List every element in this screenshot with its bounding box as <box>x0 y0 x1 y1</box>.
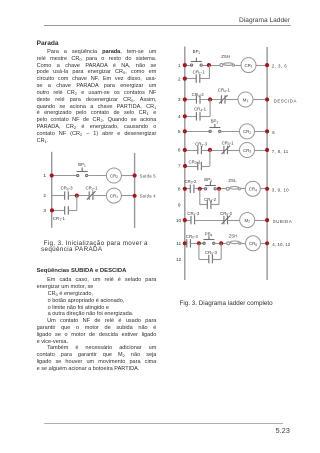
svg-text:BP3: BP3 <box>204 177 212 183</box>
svg-text:M1: M1 <box>243 97 249 103</box>
node junction rung2 <box>75 194 79 198</box>
wire rung3 to coil <box>225 99 238 101</box>
svg-text:CR4-2: CR4-2 <box>204 197 217 203</box>
relay coil CR5 <box>246 236 261 251</box>
contact CR4-3 (NO rung10) <box>187 211 200 224</box>
wire rung2 right segment <box>121 195 134 197</box>
svg-text:8: 8 <box>178 187 181 193</box>
rung number 3 <box>43 208 46 214</box>
svg-text:CR1-1: CR1-1 <box>53 216 66 222</box>
svg-text:CR5: CR5 <box>249 241 257 247</box>
node rung8-left rail <box>183 187 187 191</box>
contact CR1-3 (NO seal rung4) <box>194 107 207 121</box>
svg-text:1: 1 <box>43 173 46 179</box>
wire rung3 to connector <box>68 210 77 212</box>
motor coil M1 <box>238 92 253 107</box>
rung number 2 <box>43 193 46 199</box>
svg-text:7, 8, 11: 7, 8, 11 <box>272 149 289 154</box>
svg-text:BP1: BP1 <box>78 162 86 168</box>
svg-text:CR0-3: CR0-3 <box>61 186 74 192</box>
rung 5: wire left <box>185 131 210 133</box>
wire rung5 right <box>255 131 268 133</box>
rung 6: wire left <box>185 150 198 152</box>
ref label rung11 <box>272 242 290 247</box>
rung 3: wire left <box>185 99 197 101</box>
ref label rung8 <box>272 187 289 192</box>
contact CR3-1 (NC rung6) <box>222 140 235 154</box>
svg-text:6: 6 <box>178 148 181 154</box>
svg-text:CR2-3: CR2-3 <box>195 142 208 148</box>
wire rung1 to coil <box>235 65 242 67</box>
wire rung1 left segment <box>52 175 77 177</box>
svg-text:9: 9 <box>178 202 181 208</box>
node rung1-left rail <box>50 173 54 177</box>
node rung1-left rail <box>183 63 187 67</box>
contact CR2-1 (NC, small fig) <box>85 186 98 200</box>
svg-text:ZSH: ZSH <box>221 54 230 59</box>
node rung6-right rail <box>265 148 269 152</box>
node rung6-left rail <box>183 148 187 152</box>
svg-text:4, 10, 12: 4, 10, 12 <box>272 242 290 247</box>
rung 9 (seal): connector left <box>199 189 201 205</box>
svg-text:6: 6 <box>272 130 275 135</box>
wire rung8 mid <box>215 188 226 190</box>
wire rung11 right <box>261 243 268 245</box>
svg-text:CR1-1: CR1-1 <box>193 70 206 76</box>
svg-text:CR0-3: CR0-3 <box>186 234 199 240</box>
wire connector rung2 to rung1 <box>208 65 210 79</box>
svg-text:3: 3 <box>43 208 46 214</box>
node rung11-left rail <box>183 241 187 245</box>
svg-text:CR4-3: CR4-3 <box>187 211 200 217</box>
svg-text:BP1: BP1 <box>193 49 201 55</box>
wire rung10 mid <box>195 220 224 222</box>
node rung7-left rail <box>183 164 187 168</box>
left power rail (small fig) <box>51 152 53 228</box>
wire rung2 right <box>200 78 210 80</box>
svg-text:2: 2 <box>43 193 46 199</box>
wire rung6 right <box>255 150 268 152</box>
wire rung11 to junction <box>190 243 204 245</box>
pushbutton BP1 (large fig) <box>191 49 203 66</box>
svg-text:CR4-1: CR4-1 <box>218 88 231 94</box>
contact CR1-1 (NO seal rung2) <box>193 70 206 83</box>
node rung2-left rail <box>183 77 187 81</box>
contact CR3-1 (NO seal rung7) <box>188 159 201 170</box>
node rung10-right rail <box>265 218 269 222</box>
node junction rung8 left <box>198 187 202 191</box>
svg-text:M2: M2 <box>244 218 250 224</box>
node rung4-left rail <box>183 114 187 118</box>
contact CR0-3 (NO rung11) <box>186 234 199 248</box>
relay coil CR2 <box>240 124 255 139</box>
wire rung10 to coil <box>228 220 240 222</box>
svg-text:CR1: CR1 <box>244 63 252 69</box>
node junction rung8 right <box>217 187 221 191</box>
svg-text:CR5-3: CR5-3 <box>205 250 218 256</box>
wire rung6 to coil <box>228 150 240 152</box>
svg-text:12: 12 <box>176 257 182 263</box>
limit switch ZSH (rung11) <box>227 233 241 244</box>
rung 7 (seal): wire <box>185 166 198 168</box>
svg-text:7: 7 <box>178 164 181 170</box>
svg-text:CR3-1: CR3-1 <box>188 159 201 165</box>
contact CR4-2 (NO seal rung9) <box>200 197 217 209</box>
node rung5-left rail <box>183 129 187 133</box>
contact CR5-3 (NO seal rung12) <box>199 250 218 263</box>
ref label rung6 <box>272 149 289 154</box>
node rung10-left rail <box>183 218 187 222</box>
wire rung12 right + connector <box>212 243 221 259</box>
svg-text:CR2: CR2 <box>243 129 251 135</box>
relay coil CR2 (small fig rung1) <box>106 168 121 183</box>
ref label DESCIDA <box>274 99 297 104</box>
svg-text:11: 11 <box>176 241 181 247</box>
contact CR2-3 (NO rung6) <box>195 142 208 155</box>
contact CR0-2 (NO rung8) <box>184 179 197 193</box>
svg-text:CR2-1: CR2-1 <box>85 186 98 192</box>
wire rung4 right <box>200 116 210 118</box>
wire rung10 right <box>255 220 267 222</box>
svg-text:4: 4 <box>178 114 181 120</box>
footer <box>44 423 283 424</box>
wire rung8 to coil <box>241 188 246 190</box>
wire rung11 to coil <box>241 243 246 245</box>
pushbutton BP2 (rung5) <box>209 119 221 133</box>
svg-text:DESCIDA: DESCIDA <box>274 99 297 104</box>
node junction rung11 right <box>219 241 223 245</box>
motor coil M2 <box>240 213 255 228</box>
left power rail (large fig) <box>184 47 186 281</box>
node rung11-right rail <box>265 241 269 245</box>
wire rung7 right <box>201 166 210 168</box>
wire rung1 middle segment <box>87 175 106 177</box>
ref label rung5 <box>272 130 275 135</box>
node rung1-right rail <box>265 63 269 67</box>
ref label SUBIDA <box>273 219 292 224</box>
pushbutton BP1 (NO) <box>77 162 88 177</box>
rung numbers 1-12 (large fig) <box>176 63 182 263</box>
svg-text:BP2: BP2 <box>211 119 219 125</box>
svg-text:Saída 4: Saída 4 <box>140 194 157 199</box>
wire rung3 left segment <box>52 210 65 212</box>
node rung3-left rail <box>183 97 187 101</box>
svg-text:CR5-2: CR5-2 <box>220 211 233 217</box>
node junction rung11 left <box>197 241 201 245</box>
svg-text:5: 5 <box>178 129 181 135</box>
relay coil CR1 <box>241 58 256 73</box>
output label Saida 5 <box>140 173 157 178</box>
wire rung1 mid <box>201 65 219 67</box>
svg-text:3, 9, 10: 3, 9, 10 <box>272 187 289 192</box>
node rung3-right rail <box>265 97 269 101</box>
contact CR5-2 (NC rung10) <box>220 211 233 224</box>
wire connector rung3 up to rung2 junction <box>76 196 78 211</box>
svg-text:2: 2 <box>178 76 181 82</box>
heading Seqüências SUBIDA e DESCIDA <box>37 268 157 275</box>
wire rung2 to coil <box>93 195 106 197</box>
svg-text:ZSL: ZSL <box>228 178 237 183</box>
wire rung5 to coil <box>220 131 240 133</box>
node rung1-right rail <box>133 173 137 177</box>
node rung2-right rail <box>133 194 137 198</box>
caption of small figure <box>37 241 159 253</box>
rung number 1 <box>43 173 46 179</box>
svg-text:CR4: CR4 <box>249 187 257 193</box>
relay coil CR3 <box>240 143 255 158</box>
rung 11: wire left <box>185 243 187 245</box>
running header "Diagrama Ladder" <box>0 17 290 24</box>
wire rung8 right <box>260 188 267 190</box>
left column: heading Parada <box>37 41 157 47</box>
wire rung1 right <box>256 65 267 67</box>
wire rung3 right <box>253 99 267 101</box>
svg-text:ZSH: ZSH <box>229 233 238 238</box>
node rung5-right rail <box>265 129 269 133</box>
svg-text:CR3: CR3 <box>243 148 251 154</box>
node junction rung3/rung4 <box>208 97 212 101</box>
wire rung1 right segment <box>121 175 134 177</box>
relay coil CR4 <box>245 181 260 196</box>
svg-text:SUBIDA: SUBIDA <box>273 219 292 224</box>
wire rung2 left segment <box>52 195 65 197</box>
node junction rung6/rung7 <box>208 148 212 152</box>
svg-text:Saída 5: Saída 5 <box>140 173 157 178</box>
svg-text:3: 3 <box>178 97 181 103</box>
wire rung11 mid <box>214 243 227 245</box>
svg-text:CR0-2: CR0-2 <box>184 179 197 185</box>
pushbutton BP3 (rung8) <box>204 177 216 190</box>
rung 2 (seal): wire <box>185 78 196 80</box>
wire connector rung4 to rung3 <box>209 100 211 117</box>
svg-text:10: 10 <box>176 218 182 224</box>
limit switch ZSL (rung8) <box>226 178 240 190</box>
svg-text:CR2: CR2 <box>110 173 118 179</box>
left column paragraph 1 <box>37 49 157 145</box>
node rung8-right rail <box>265 187 269 191</box>
svg-text:CR1-2: CR1-2 <box>192 92 205 98</box>
contact CR1-1 (NO seal, small fig) <box>53 206 68 221</box>
wire rung2 to junction <box>68 195 89 197</box>
rung 4 (seal): wire <box>185 116 197 118</box>
svg-text:2, 3, 6: 2, 3, 6 <box>272 64 287 69</box>
wire rung6 mid <box>201 150 224 152</box>
contact CR4-1 (NC rung3) <box>218 88 231 104</box>
svg-text:CR3-1: CR3-1 <box>222 140 235 146</box>
node junction rung1/rung2 <box>207 63 211 67</box>
wire rung8 to junction <box>194 188 206 190</box>
wire connector rung7 to rung6 <box>209 150 211 166</box>
svg-text:PB4: PB4 <box>205 232 213 238</box>
svg-text:1: 1 <box>178 63 181 69</box>
contact CR0-3 (NO, small fig) <box>61 186 74 200</box>
rung 8: wire left <box>185 188 191 190</box>
wire rung3 mid <box>200 99 221 101</box>
left column paragraph 2 <box>37 277 157 373</box>
right power rail (small fig) <box>134 153 136 228</box>
svg-text:CR4-1: CR4-1 <box>194 107 207 113</box>
limit switch ZSH (rung1) <box>220 54 235 67</box>
ref label rung1 <box>272 64 287 69</box>
right power rail (large fig) <box>266 47 268 280</box>
relay coil CR1 (small fig rung2) <box>106 188 121 203</box>
rung 10: wire left <box>185 220 191 222</box>
rung 12 (seal): connector left <box>198 243 200 259</box>
wire rung9 right + connector <box>211 189 219 205</box>
pushbutton PB4 (rung11) <box>203 232 215 245</box>
svg-text:CR1: CR1 <box>110 193 118 199</box>
output label Saida 4 <box>140 194 157 199</box>
node rung3-left rail <box>50 208 54 212</box>
caption of large figure <box>180 301 320 308</box>
contact CR1-2 (NO rung3) <box>192 92 205 104</box>
rung 1: wire left <box>185 65 192 67</box>
